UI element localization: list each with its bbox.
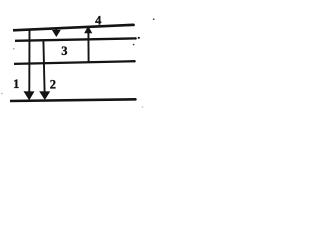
svg-text:2: 2 xyxy=(50,77,56,91)
arrow 4 head (points up) xyxy=(84,26,92,33)
level line L3 xyxy=(14,61,135,64)
L2 right end blob xyxy=(134,37,136,39)
speck below L2 right xyxy=(133,44,135,46)
faint speck left xyxy=(13,48,15,50)
arrow 2 shaft (L2 to ground) xyxy=(43,40,44,92)
arrow 1 head xyxy=(24,91,35,100)
L3 right end blob xyxy=(133,60,135,62)
svg-text:4: 4 xyxy=(95,14,102,28)
faint speck bottom right xyxy=(142,106,144,108)
arrow 3 head xyxy=(52,30,61,37)
svg-text:1: 1 xyxy=(13,77,19,91)
arrow 1 shaft (L1 to ground) xyxy=(28,30,30,94)
arrow 3 shaft (L1 to L2) xyxy=(55,28,57,31)
level line L1 (top) xyxy=(13,25,134,31)
speck top right xyxy=(153,18,155,20)
speck right of L2 end xyxy=(138,37,140,39)
svg-text:3: 3 xyxy=(61,44,67,58)
ground right end blob xyxy=(134,98,136,100)
arrow 2 head xyxy=(39,91,50,100)
level line L2 xyxy=(15,38,136,40)
faint speck far left xyxy=(1,93,3,95)
arrow 4 shaft (L3 up to L1) xyxy=(87,33,89,62)
L1 right end blob xyxy=(132,24,135,27)
ground level line xyxy=(10,99,136,101)
